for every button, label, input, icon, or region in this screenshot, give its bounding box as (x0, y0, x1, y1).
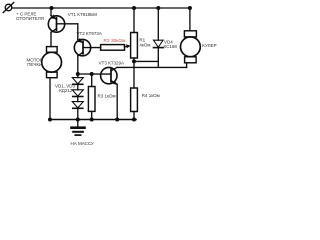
wire VT3 emitter down (116, 84, 118, 119)
node R3 top (90, 72, 94, 76)
motor M1 МОТОР ПЕЧКИ (42, 47, 62, 78)
transistor VT1 (48, 14, 78, 32)
svg-text:КУЛЕР: КУЛЕР (202, 43, 216, 48)
fan motor M2 КУЛЕР (181, 8, 201, 67)
wire R1 top to rail (133, 8, 135, 33)
node bus-R3 (90, 118, 94, 122)
node motor-bus corner (48, 118, 52, 122)
wire node A down to R4 (133, 61, 135, 88)
wire motor bottom to bus (49, 78, 51, 120)
wire VT1 emitter to rail (50, 8, 52, 16)
svg-text:ПЕЧКИ: ПЕЧКИ (27, 62, 42, 67)
node A (132, 59, 136, 63)
wire VD3 to ground bus (77, 108, 79, 119)
diode VD2 (72, 84, 83, 96)
svg-text:КД212: КД212 (59, 88, 73, 93)
transistor VT3 (101, 67, 118, 84)
svg-text:R2 30кОм: R2 30кОм (104, 38, 126, 44)
wiper arrow R2 to R1 (125, 44, 131, 48)
terminal X1 (input) (3, 3, 14, 13)
wire top rail (12, 7, 190, 9)
svg-text:ОТОПИТЕЛЯ: ОТОПИТЕЛЯ (16, 16, 44, 21)
svg-text:VT3 КТ329А: VT3 КТ329А (99, 61, 124, 66)
wire R3 bottom (91, 111, 93, 119)
diode VD1 (72, 74, 83, 84)
wire VT1 base down to VT2 emitter (77, 24, 79, 40)
wire VT3 collector line B (117, 66, 186, 68)
svg-text:КС168: КС168 (164, 44, 178, 49)
wire VT2 collector node to VT3 base (78, 73, 111, 75)
wire VT2 collector down (77, 56, 79, 74)
node rail-R1 (132, 6, 136, 10)
resistor R4 (vertical) (131, 88, 138, 112)
zener diode VD4 (154, 8, 164, 67)
svg-text:4кОм: 4кОм (139, 42, 150, 47)
svg-text:НА МАССУ: НА МАССУ (71, 141, 95, 146)
node rail-VT1 emitter (50, 6, 54, 10)
svg-text:VT2 КТ973А: VT2 КТ973А (77, 31, 102, 36)
ground symbol (72, 120, 85, 136)
node VT2 collector / diode column (76, 72, 80, 76)
transistor VT2 (74, 38, 100, 56)
svg-text:R3 1кОм: R3 1кОм (98, 93, 116, 98)
node bus-VT3 emitter (115, 118, 119, 122)
resistor R2 (horizontal) (101, 45, 125, 51)
node rail-VD4 (156, 6, 160, 10)
node bus-VD3 (76, 118, 80, 122)
node rail-fan (188, 6, 192, 10)
wire ground bus (50, 119, 136, 121)
wire R4 bottom to ground bus (133, 112, 135, 120)
resistor R1 (vertical) (131, 33, 138, 59)
wire R1 bottom to node A (133, 58, 135, 61)
node bus-R4 (132, 118, 136, 122)
resistor R3 (vertical) (88, 87, 95, 112)
wire VT1 collector to motor (50, 32, 52, 46)
wire R3 top (91, 74, 93, 87)
svg-text:R4 1кОм: R4 1кОм (142, 93, 160, 98)
wire node A to zener column (134, 60, 158, 62)
diode VD3 (72, 97, 83, 109)
svg-text:VT1 КТ818БМ: VT1 КТ818БМ (68, 12, 97, 17)
